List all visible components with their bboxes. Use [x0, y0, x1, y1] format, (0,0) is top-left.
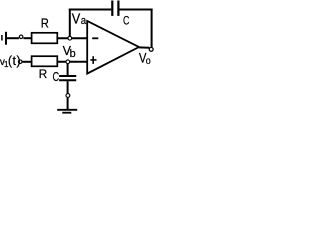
svg-text:C: C — [53, 71, 60, 85]
svg-text:(t): (t) — [8, 54, 21, 68]
svg-text:C: C — [123, 16, 130, 28]
svg-text:R: R — [39, 67, 48, 81]
svg-text:R: R — [41, 16, 49, 31]
